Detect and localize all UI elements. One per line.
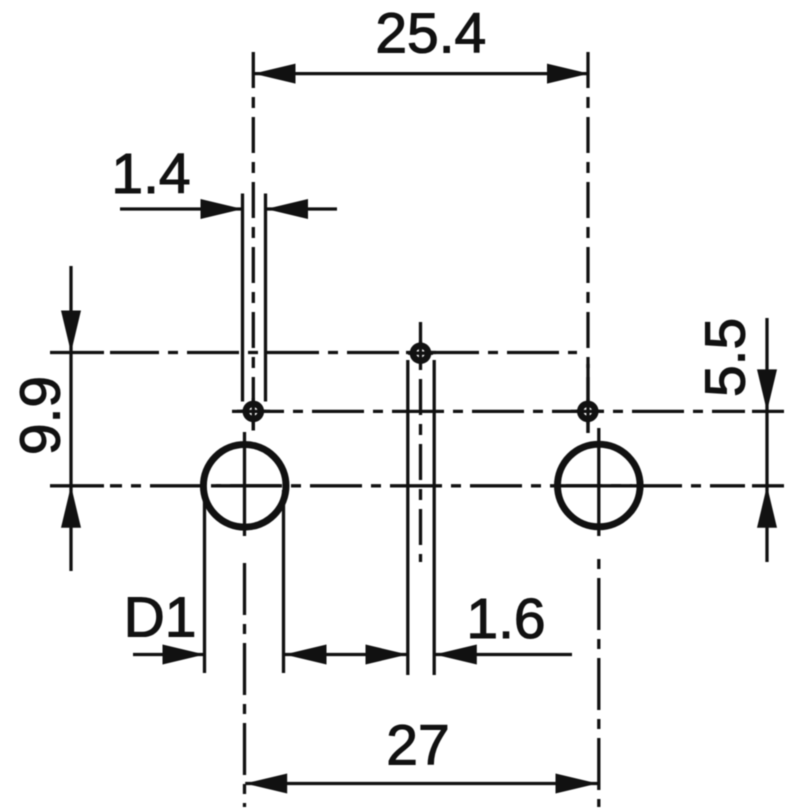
svg-text:5.5: 5.5 bbox=[693, 318, 757, 397]
arrowhead 9.9 top (points down) bbox=[61, 311, 81, 353]
svg-text:1.4: 1.4 bbox=[111, 142, 190, 206]
arrowhead left of 25.4 bbox=[254, 64, 296, 84]
wire: dimension line 5.5 (right, vertical) bbox=[765, 318, 768, 562]
wire: slot1 left edge bbox=[241, 194, 244, 402]
wire: solid overlay through right big hole bbox=[566, 484, 632, 487]
node: left big hole vertical centerline bbox=[243, 563, 246, 807]
wire: leader right of 1.4 dimension bbox=[266, 207, 337, 210]
node: slot2 centerline bbox=[419, 366, 422, 562]
wire: solid overlay through left small hole bbox=[252, 398, 255, 431]
arrowhead 5.5 top (points down) bbox=[757, 369, 777, 411]
wire: solid overlay through middle hole bbox=[406, 351, 436, 354]
node: right extension centerline x=588 (small hole axis) bbox=[586, 52, 589, 433]
wire: solid overlay through left big hole vertical bbox=[243, 432, 246, 536]
svg-text:9.9: 9.9 bbox=[9, 376, 73, 455]
wire: center cross over left small hole bbox=[241, 399, 266, 424]
wire: center cross over middle small hole bbox=[408, 341, 433, 366]
arrowhead 1.6 left (points right) bbox=[366, 645, 408, 665]
wire: solid overlay through right small hole bbox=[571, 410, 604, 413]
wire: D1 right extension (tangent) bbox=[282, 490, 285, 673]
wire: dimension line 9.9 (left, vertical) bbox=[69, 266, 72, 571]
arrowhead 27 right (points right) bbox=[556, 774, 598, 794]
wire: slot2 right edge bbox=[433, 360, 436, 675]
svg-text:D1: D1 bbox=[124, 585, 197, 649]
arrowhead 1.4 left (points right) bbox=[201, 199, 243, 219]
hole: right big circle bbox=[558, 444, 641, 527]
hole: middle small circle (slot2 top) bbox=[410, 342, 432, 364]
node: right big hole vertical centerline bbox=[597, 550, 600, 807]
wire: D1 leader line bbox=[133, 653, 205, 656]
arrowhead 1.6 right (points left) bbox=[435, 645, 477, 665]
wire: slot2 left edge bbox=[406, 360, 409, 675]
hole: left big circle D1 bbox=[203, 445, 286, 528]
svg-text:1.6: 1.6 bbox=[466, 587, 545, 651]
node: horizontal centerline B y=411.4 bbox=[232, 410, 745, 413]
wire: solid overlay through left small hole bbox=[237, 410, 270, 413]
wire: D1 left extension (tangent) bbox=[203, 490, 206, 673]
arrowhead D1 right (points left) bbox=[285, 645, 327, 665]
hole: right small circle bbox=[577, 401, 599, 423]
svg-text:25.4: 25.4 bbox=[375, 2, 486, 66]
hole: left small circle bbox=[243, 401, 265, 423]
wire: dimension line 27 bbox=[245, 782, 597, 785]
wire: 1.6 right leader bbox=[435, 653, 572, 656]
arrowhead 1.4 right (points left) bbox=[266, 199, 308, 219]
arrowhead 27 left (points left) bbox=[245, 774, 287, 794]
arrowhead right of 25.4 bbox=[547, 64, 589, 84]
svg-text:27: 27 bbox=[386, 714, 449, 778]
wire: stub above middle hole bbox=[419, 322, 422, 343]
wire: center cross over right small hole bbox=[576, 399, 601, 424]
arrowhead D1 left (points right) bbox=[163, 645, 205, 665]
arrowhead 5.5 bottom (points up) bbox=[757, 486, 777, 528]
wire: solid overlay through left big hole bbox=[216, 484, 280, 487]
arrowhead 9.9 bottom (points up) bbox=[61, 486, 81, 528]
wire: solid overlay through right big hole vertical bbox=[597, 428, 600, 536]
node: horizontal centerline A y=352.5 bbox=[50, 351, 104, 354]
node: horizontal centerline C y=485.8 bbox=[50, 484, 104, 487]
wire: line between D1 and 1.6 arrows bbox=[285, 653, 408, 656]
wire: slot1 right edge bbox=[264, 194, 267, 402]
wire: dimension line 25.4 bbox=[254, 72, 590, 75]
wire: leader left of 1.4 dimension bbox=[120, 207, 243, 210]
wire: solid overlay through right small hole bbox=[586, 364, 589, 433]
node: left extension centerline x=253.3 (slot 1 / small hole axis) bbox=[252, 52, 255, 431]
